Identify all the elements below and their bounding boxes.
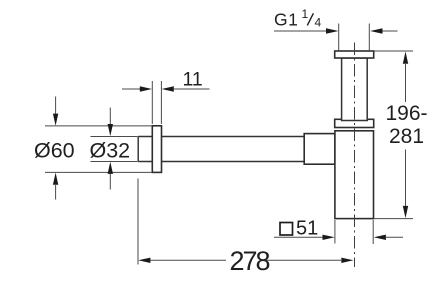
- trap body square 51: [335, 131, 374, 219]
- dim 196-281 label: [385, 102, 427, 148]
- lower union nut of vertical tube: [335, 119, 374, 127]
- dim 196-281 vertical line with arrows: [405, 64, 407, 207]
- dim Ø32 up arrow: [109, 174, 111, 190]
- dim 51 left arrow pointing right: [274, 236, 323, 238]
- dim 51 right arrow pointing left: [386, 236, 403, 238]
- svg-text:G1: G1: [274, 10, 298, 30]
- dim 51 extension lines: [335, 220, 373, 244]
- svg-text:11: 11: [183, 69, 203, 91]
- centerline vertical dash-dot: [354, 43, 356, 268]
- G1 1/4 label: [274, 7, 322, 30]
- dim 278 extension line at wall: [137, 179, 139, 265]
- svg-text:281: 281: [389, 125, 424, 148]
- dim Ø32 down arrow: [109, 108, 111, 125]
- compression nut at trap inlet: [304, 134, 335, 165]
- dim Ø32 extension lines: [91, 137, 138, 162]
- G1 1/4 right arrow pointing left: [383, 30, 398, 32]
- dim 11 extension lines: [152, 81, 161, 124]
- horizontal inlet pipe Ø32: [138, 137, 304, 162]
- wall flange Ø60: [152, 126, 161, 173]
- dim Ø60 down arrow: [55, 97, 57, 115]
- svg-text:278: 278: [230, 246, 270, 276]
- svg-text:Ø32: Ø32: [90, 139, 131, 163]
- svg-text:196-: 196-: [385, 102, 427, 125]
- svg-text:51: 51: [296, 218, 318, 240]
- dim 278 line with arrows: [150, 259, 341, 261]
- dim square-51 symbol: [280, 223, 293, 236]
- dim 11 left arrow pointing right: [122, 88, 140, 90]
- svg-text:1: 1: [302, 7, 309, 21]
- upper union nut G1 1/4: [335, 51, 374, 58]
- svg-text:Ø60: Ø60: [34, 139, 75, 163]
- dim Ø60 up arrow: [55, 185, 57, 200]
- vertical telescopic tube: [342, 58, 368, 121]
- dim 196-281 extension lines: [374, 51, 414, 219]
- svg-text:4: 4: [315, 16, 322, 30]
- G1 1/4 thread extension lines: [339, 24, 370, 51]
- G1 1/4 leader line with right-pointing arrow: [274, 30, 326, 32]
- dim Ø60 extension lines: [45, 126, 152, 172]
- dim 11 right arrow pointing left: [174, 88, 210, 90]
